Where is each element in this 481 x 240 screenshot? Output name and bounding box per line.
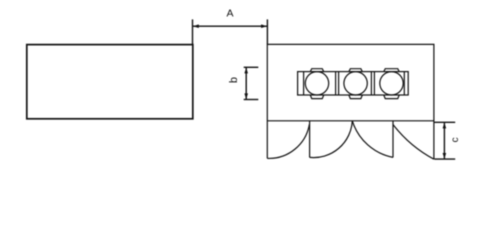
svg-text:c: c (450, 137, 461, 142)
svg-text:b: b (228, 77, 240, 83)
svg-text:A: A (226, 8, 233, 20)
